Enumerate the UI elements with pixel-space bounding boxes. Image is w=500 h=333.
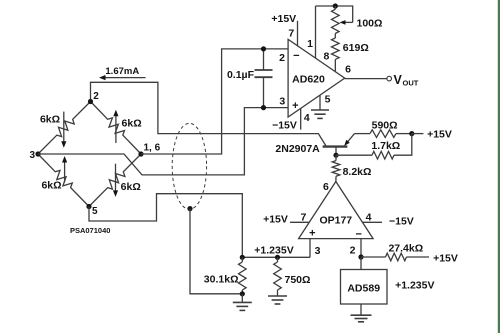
svg-text:+15V: +15V (271, 13, 296, 25)
node 5 (86, 204, 91, 209)
svg-text:6: 6 (323, 181, 329, 193)
svg-text:7: 7 (288, 28, 294, 40)
ground AD620 pin5 (311, 110, 329, 118)
svg-text:1, 6: 1, 6 (144, 143, 161, 154)
node 2 (88, 99, 93, 104)
label pin 8 (323, 51, 329, 63)
label 590 (372, 119, 398, 131)
arrow bottom-right gauge (113, 164, 118, 197)
svg-text:750Ω: 750Ω (285, 274, 311, 286)
label -15V AD620 (272, 120, 297, 132)
label PSA071040 (70, 226, 110, 235)
wire pin2 to AD589 (360, 257, 362, 270)
label 750 (285, 274, 311, 286)
pin 7 +15V stem (297, 21, 299, 46)
svg-text:2: 2 (93, 91, 99, 102)
svg-text:3: 3 (279, 96, 285, 108)
junction +15V right (409, 131, 414, 136)
label +1.235V left (254, 245, 293, 257)
label 1.67mA (105, 66, 139, 77)
cable shield ellipse (172, 123, 206, 209)
label -15V OP177 (389, 215, 414, 227)
label 6k top-right (122, 117, 142, 129)
right border line (498, 0, 500, 333)
svg-text:+: + (292, 100, 298, 112)
svg-text:2N2907A: 2N2907A (275, 143, 320, 155)
label pin 5 (325, 94, 331, 106)
label 619 (343, 42, 369, 54)
label +15V bottom (433, 253, 458, 265)
bridge arm R top-right 6k (91, 102, 142, 155)
label OP177 (319, 214, 352, 226)
label 27.4k (388, 242, 423, 254)
resistor 30.1k (239, 257, 247, 294)
svg-text:0.1µF: 0.1µF (227, 69, 255, 81)
wire node 3 to AD620 pin 3 (38, 108, 288, 175)
svg-text:V: V (394, 73, 403, 87)
svg-text:27.4kΩ: 27.4kΩ (388, 242, 423, 254)
pin 5 stem (319, 95, 321, 110)
label pin 4 (304, 112, 310, 124)
label 6k top-left (40, 114, 60, 126)
svg-text:100Ω: 100Ω (357, 17, 383, 29)
node 3 (35, 151, 40, 156)
svg-text:+15V: +15V (427, 129, 452, 141)
resistor 27.4k (361, 253, 429, 261)
bridge arm R bottom-left 6k (38, 154, 89, 207)
junction cap top (261, 46, 266, 51)
label pin 6 OP177 (323, 181, 329, 193)
svg-text:OUT: OUT (403, 79, 419, 88)
svg-text:+1.235V: +1.235V (395, 280, 434, 292)
label +1.235V right (395, 280, 434, 292)
label 100 (357, 17, 383, 29)
svg-text:1.67mA: 1.67mA (105, 66, 139, 77)
junction rail left (240, 255, 245, 260)
wire node 5 to 1.235V rail (89, 194, 242, 258)
label +15V OP177 (263, 214, 288, 226)
svg-text:AD620: AD620 (292, 73, 325, 85)
svg-text:6kΩ: 6kΩ (121, 181, 141, 193)
label node 2 (93, 91, 99, 102)
resistor 619 ohm (332, 34, 340, 73)
pin 4 wire OP177 (362, 221, 382, 223)
label 2N2907A (275, 143, 320, 155)
label 8.2k (343, 166, 372, 178)
svg-text:590Ω: 590Ω (372, 119, 398, 131)
pin 4 -15V stem (300, 109, 302, 130)
svg-text:−15V: −15V (272, 120, 297, 132)
svg-text:−15V: −15V (389, 215, 414, 227)
wire bridge drive from node 2 to transistor collector (91, 82, 327, 146)
label pin 3 OP177 (315, 245, 321, 257)
op-amp U1 AD620 (288, 39, 345, 117)
junction base node (333, 153, 338, 158)
svg-text:30.1kΩ: 30.1kΩ (204, 273, 239, 285)
svg-text:−: − (293, 50, 299, 62)
resistor 8.2k (332, 155, 340, 181)
pot wiper arrow (340, 20, 353, 25)
wire gain top (316, 6, 353, 22)
node 1,6 (138, 151, 143, 156)
label AD589 (347, 283, 380, 295)
label pin 4 OP177 (366, 211, 372, 223)
label node 5 (92, 206, 98, 217)
junction rail 750 (275, 255, 280, 260)
junction pin2 node (358, 254, 363, 259)
ground AD589 (351, 304, 372, 322)
label node 1,6 (144, 143, 161, 154)
arrow top-right gauge (113, 110, 118, 143)
arrow bottom-left gauge (62, 156, 67, 182)
emitter wire and resistor 590 (355, 130, 412, 138)
pin 7 wire OP177 (290, 221, 310, 223)
bridge arm R bottom-right 6k (89, 154, 141, 207)
label 6k bottom-left (41, 179, 61, 191)
plus sign pin3 (292, 100, 298, 112)
label AD620 (292, 73, 325, 85)
shield junction (187, 206, 192, 211)
ground 30.1k (233, 294, 252, 311)
transistor Q1 2N2907A (323, 134, 355, 156)
svg-text:+15V: +15V (433, 253, 458, 265)
svg-text:2: 2 (350, 245, 356, 257)
label pin 1 (307, 38, 313, 50)
svg-text:3: 3 (29, 150, 35, 161)
pin 1 stem (315, 6, 317, 58)
label 0.1uF (227, 69, 255, 81)
terminal VOUT (387, 76, 392, 81)
svg-text:5: 5 (325, 94, 331, 106)
label +15V top (271, 13, 296, 25)
label node 3 (29, 150, 35, 161)
svg-text:5: 5 (92, 206, 98, 217)
wire 1.235V rail (242, 256, 310, 258)
resistor 750 (274, 257, 282, 296)
label 1.7k (371, 140, 400, 152)
svg-text:2: 2 (279, 52, 285, 64)
voltage reference U3 AD589 (341, 270, 388, 305)
pin 3 wire OP177 (309, 239, 311, 258)
label pin 2 (279, 52, 285, 64)
potentiometer 100 ohm (332, 6, 340, 34)
label pin 6 (345, 64, 351, 76)
svg-text:1: 1 (307, 38, 313, 50)
svg-text:+15V: +15V (263, 214, 288, 226)
pin 6 output wire (345, 78, 387, 80)
junction cap bottom (261, 105, 266, 110)
svg-text:3: 3 (315, 245, 321, 257)
svg-text:4: 4 (304, 112, 310, 124)
wire node 1,6 to AD620 pin 2 (141, 49, 288, 154)
plus sign OP177 (309, 228, 315, 240)
label pin 2 OP177 (350, 245, 356, 257)
label pin 7 OP177 (300, 211, 306, 223)
capacitor 0.1uF (255, 49, 273, 108)
svg-text:7: 7 (300, 211, 306, 223)
minus sign OP177 (355, 229, 361, 241)
junction pot top (333, 3, 338, 8)
minus sign pin2 (293, 50, 299, 62)
label VOUT (394, 73, 419, 88)
pin 2 wire OP177 (360, 239, 362, 257)
ground 750 (268, 296, 287, 304)
label +15V right (427, 129, 452, 141)
wire shield to ground (190, 209, 242, 294)
label pin 3 (279, 96, 285, 108)
wire to +15V label (412, 133, 424, 135)
current arrow 1.67mA (99, 75, 146, 80)
svg-text:8.2kΩ: 8.2kΩ (343, 166, 372, 178)
svg-text:OP177: OP177 (319, 214, 352, 226)
label pin 7 (288, 28, 294, 40)
svg-text:+: + (309, 228, 315, 240)
label 6k bottom-right (121, 181, 141, 193)
svg-text:1.7kΩ: 1.7kΩ (371, 140, 400, 152)
op-amp U2 OP177 (299, 182, 374, 239)
arrow top-left gauge (61, 112, 66, 148)
svg-text:6: 6 (345, 64, 351, 76)
svg-text:4: 4 (366, 211, 372, 223)
svg-text:6kΩ: 6kΩ (41, 179, 61, 191)
svg-text:619Ω: 619Ω (343, 42, 369, 54)
junction 30.1k bottom (240, 291, 245, 296)
svg-text:6kΩ: 6kΩ (40, 114, 60, 126)
svg-text:6kΩ: 6kΩ (122, 117, 142, 129)
svg-text:AD589: AD589 (347, 283, 380, 295)
bridge arm R top-left 6k (38, 102, 91, 155)
resistor 1.7k base pullup (336, 134, 412, 159)
label 30.1k (204, 273, 239, 285)
svg-text:PSA071040: PSA071040 (70, 226, 110, 235)
svg-text:+1.235V: +1.235V (254, 245, 293, 257)
svg-text:8: 8 (323, 51, 329, 63)
